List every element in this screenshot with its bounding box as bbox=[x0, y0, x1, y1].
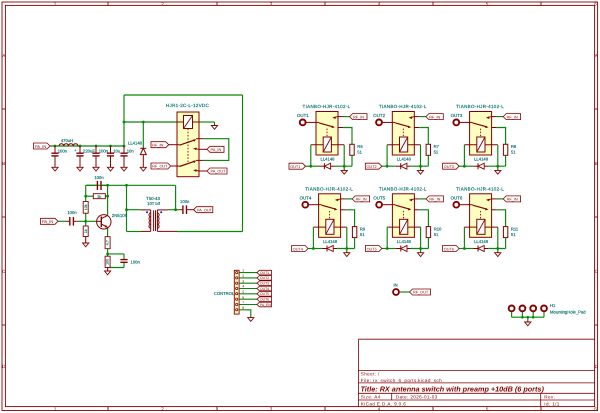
svg-text:TIANBO-HJR-4102-L: TIANBO-HJR-4102-L bbox=[456, 187, 504, 192]
svg-text:RF_IN: RF_IN bbox=[507, 115, 518, 119]
svg-text:OUT2: OUT2 bbox=[373, 113, 385, 118]
svg-text:RF_IN: RF_IN bbox=[353, 115, 364, 119]
svg-text:RF_OUT: RF_OUT bbox=[413, 291, 429, 295]
svg-text:OUT1: OUT1 bbox=[297, 113, 309, 118]
svg-text:OUT2: OUT2 bbox=[367, 165, 377, 169]
svg-text:51: 51 bbox=[434, 150, 439, 155]
svg-text:LL4148: LL4148 bbox=[128, 141, 143, 146]
svg-text:470uH: 470uH bbox=[61, 138, 73, 143]
svg-text:Date: 2026-01-03: Date: 2026-01-03 bbox=[396, 394, 438, 399]
svg-text:Id: 1/1: Id: 1/1 bbox=[544, 401, 559, 406]
svg-text:2: 2 bbox=[161, 1, 164, 6]
svg-text:PA_IN: PA_IN bbox=[211, 148, 222, 152]
svg-text:IN: IN bbox=[394, 283, 398, 288]
svg-text:100n: 100n bbox=[94, 175, 104, 180]
svg-text:100n: 100n bbox=[131, 260, 141, 265]
svg-text:100n: 100n bbox=[99, 149, 109, 154]
svg-text:5: 5 bbox=[486, 407, 489, 412]
svg-text:RF_OUT: RF_OUT bbox=[152, 165, 168, 169]
svg-text:220uF: 220uF bbox=[83, 149, 95, 154]
svg-text:100n: 100n bbox=[67, 210, 77, 215]
svg-text:10u: 10u bbox=[113, 149, 121, 154]
svg-text:PA_OUT: PA_OUT bbox=[211, 170, 227, 174]
svg-text:1: 1 bbox=[54, 407, 57, 412]
svg-text:RF_IN: RF_IN bbox=[429, 115, 440, 119]
svg-text:LL4148: LL4148 bbox=[397, 239, 412, 244]
svg-text:OUT5: OUT5 bbox=[367, 247, 377, 251]
svg-text:File: rx_switch_6_ports.kicad_: File: rx_switch_6_ports.kicad_sch bbox=[361, 378, 442, 383]
svg-text:OUT6: OUT6 bbox=[451, 195, 463, 200]
svg-text:OUT1: OUT1 bbox=[290, 165, 300, 169]
svg-text:HJR1-2C-L-12VDC: HJR1-2C-L-12VDC bbox=[166, 103, 209, 108]
svg-text:CONTROL: CONTROL bbox=[214, 291, 235, 296]
svg-text:KiCad E.D.A. 9.0.6: KiCad E.D.A. 9.0.6 bbox=[361, 401, 406, 406]
svg-text:H1: H1 bbox=[550, 303, 556, 308]
svg-text:TIANBO-HJR-4102-L: TIANBO-HJR-4102-L bbox=[305, 187, 353, 192]
svg-text:OUT3: OUT3 bbox=[260, 282, 269, 286]
svg-text:+: + bbox=[74, 148, 77, 152]
svg-text:R7: R7 bbox=[434, 144, 440, 149]
svg-text:OUT3: OUT3 bbox=[444, 165, 454, 169]
svg-text:51: 51 bbox=[357, 150, 362, 155]
svg-text:2N5109: 2N5109 bbox=[112, 213, 128, 218]
svg-text:51: 51 bbox=[360, 232, 365, 237]
svg-text:1: 1 bbox=[54, 1, 57, 6]
svg-text:Sheet: /: Sheet: / bbox=[361, 372, 380, 377]
svg-text:51: 51 bbox=[511, 150, 516, 155]
svg-text:R8: R8 bbox=[511, 144, 517, 149]
svg-text:LL4148: LL4148 bbox=[397, 157, 412, 162]
svg-text:A: A bbox=[595, 53, 599, 58]
svg-text:2: 2 bbox=[161, 407, 164, 412]
svg-text:PA_IN: PA_IN bbox=[35, 144, 46, 149]
svg-text:TIANBO-HJR-4102-L: TIANBO-HJR-4102-L bbox=[379, 187, 427, 192]
svg-text:Title: RX antenna switch with: Title: RX antenna switch with preamp +10… bbox=[361, 384, 545, 393]
svg-text:LL4148: LL4148 bbox=[321, 157, 336, 162]
svg-text:R6: R6 bbox=[357, 144, 363, 149]
svg-text:3: 3 bbox=[270, 1, 273, 6]
svg-text:10k: 10k bbox=[84, 204, 88, 210]
svg-text:R10: R10 bbox=[434, 227, 442, 232]
svg-text:R9: R9 bbox=[360, 227, 366, 232]
svg-text:4: 4 bbox=[378, 407, 381, 412]
svg-text:RF_IN: RF_IN bbox=[429, 198, 440, 202]
svg-text:2k: 2k bbox=[97, 195, 101, 199]
svg-text:100n: 100n bbox=[58, 149, 68, 154]
svg-text:PA_OUT: PA_OUT bbox=[197, 208, 213, 212]
svg-text:OUT1: OUT1 bbox=[260, 271, 269, 275]
svg-text:OUT5: OUT5 bbox=[260, 292, 269, 296]
svg-text:100n: 100n bbox=[180, 199, 190, 204]
svg-text:PA_EN: PA_EN bbox=[260, 303, 271, 307]
svg-text:5: 5 bbox=[486, 1, 489, 6]
svg-text:OUT6: OUT6 bbox=[444, 247, 454, 251]
svg-text:RF_IN: RF_IN bbox=[356, 198, 367, 202]
svg-text:LL4148: LL4148 bbox=[474, 239, 489, 244]
svg-text:OUT5: OUT5 bbox=[373, 195, 385, 200]
svg-text:B: B bbox=[595, 161, 598, 166]
svg-text:10T bif: 10T bif bbox=[147, 201, 161, 206]
svg-text:OUT4: OUT4 bbox=[300, 195, 312, 200]
svg-text:OUT4: OUT4 bbox=[260, 287, 269, 291]
svg-text:4.7: 4.7 bbox=[106, 240, 110, 245]
svg-text:OUT4: OUT4 bbox=[293, 247, 303, 251]
svg-text:MountingHole_Pad: MountingHole_Pad bbox=[550, 310, 586, 315]
svg-text:R11: R11 bbox=[511, 227, 519, 232]
svg-text:Size: A4: Size: A4 bbox=[361, 394, 381, 399]
svg-text:51: 51 bbox=[511, 232, 516, 237]
svg-text:1k: 1k bbox=[84, 229, 88, 233]
svg-text:LL4148: LL4148 bbox=[474, 157, 489, 162]
svg-text:10n: 10n bbox=[127, 149, 135, 154]
svg-text:3: 3 bbox=[270, 407, 273, 412]
svg-text:TIANBO-HJR-4102-L: TIANBO-HJR-4102-L bbox=[456, 104, 504, 109]
svg-text:51: 51 bbox=[434, 232, 439, 237]
svg-text:Rev:: Rev: bbox=[544, 394, 555, 399]
svg-text:TIANBO-HJR-4102-L: TIANBO-HJR-4102-L bbox=[303, 104, 351, 109]
svg-text:B: B bbox=[2, 161, 5, 166]
svg-text:TIANBO-HJR-4102-L: TIANBO-HJR-4102-L bbox=[379, 104, 427, 109]
svg-text:OUT2: OUT2 bbox=[260, 276, 269, 280]
svg-text:OUT3: OUT3 bbox=[451, 113, 463, 118]
svg-text:PA_IN: PA_IN bbox=[42, 219, 53, 224]
svg-text:6: 6 bbox=[594, 407, 597, 412]
svg-text:RF_IN: RF_IN bbox=[507, 198, 518, 202]
svg-text:LL4148: LL4148 bbox=[323, 239, 338, 244]
svg-text:100: 100 bbox=[106, 259, 110, 265]
svg-text:6: 6 bbox=[594, 1, 597, 6]
svg-text:RF_IN: RF_IN bbox=[152, 143, 163, 147]
svg-text:OUT6: OUT6 bbox=[260, 298, 269, 302]
svg-text:4: 4 bbox=[378, 1, 381, 6]
